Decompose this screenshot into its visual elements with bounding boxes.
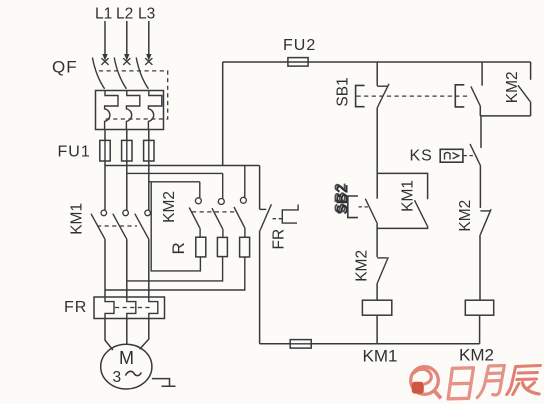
button SB1 NC contact [377,84,389,108]
wire KS to KM2 NC [479,166,481,208]
contact KM2 NC right [480,209,491,235]
wire branch A phase1 to KM2 pole3 and control [105,165,260,167]
button SB2 NO contact [365,199,377,224]
button SB1 right actuator bracket [455,85,464,107]
button SB2 actuator dash [359,206,370,208]
wire phase1 FU1 to KM1 [104,161,106,210]
wire L2 incoming [124,21,129,61]
wire rail to KM2 self-hold [530,62,532,80]
wire phase1 KM1 to FR [104,240,106,297]
button linkage dashed SB1 to right contact [357,95,471,97]
breaker QF terminal x pole3 [145,58,152,65]
svg-text:KM2: KM2 [354,250,371,282]
svg-text:3: 3 [113,369,122,386]
wire rail to SB1 [376,62,378,86]
wire KM2 self-hold bottom [530,102,532,116]
wire FR to motor phase1 [105,319,113,351]
wire right contact to node [479,106,481,116]
wire KM2 pole2 to R2 [222,229,224,237]
fuse FU2 link [288,61,308,63]
thermal relay FR heater pole1 [105,297,114,319]
wire R3 return to phase1 [105,257,245,290]
svg-text:KM2: KM2 [504,71,521,103]
wire control feed riser [222,62,224,166]
thermal relay FR linkage dashed [115,307,152,309]
breaker QF internal element pole3 [148,91,161,130]
wire SB1 to SB2 node [376,108,378,199]
svg-text:FU2: FU2 [283,37,316,54]
resistor R1 [196,237,206,257]
contactor KM2 pole1 contact [189,198,201,229]
svg-text:KM2: KM2 [459,346,494,365]
fuse FU1 pole2 link [126,140,128,161]
relay KS actuator dash [464,155,475,157]
breaker QF housing box [96,91,164,130]
wire phase2 FU1 to KM1 [126,161,128,210]
wire FR-control branch riser [259,166,261,210]
fuse bottom rail link [290,343,311,345]
wire phase3 FU1 to KM1 [148,161,150,210]
thermal relay FR heater pole2 [127,297,136,319]
contactor KM1 linkage dashed [97,225,137,227]
svg-text:SB1: SB1 [335,77,352,106]
wire L1 incoming [102,21,107,61]
fuse FU1 pole1 body [100,140,110,161]
wire bottom rail [260,343,480,345]
contactor KM1 pole2 contact [113,210,129,240]
contactor KM1 pole3 contact [135,210,151,240]
thermal contact FR actuator dash [273,218,282,220]
wire FR to motor phase3 [140,319,149,350]
svg-text:FR: FR [271,229,288,250]
wire L3 incoming [146,21,151,61]
relay KS symbol box [440,149,463,162]
svg-text:KM1: KM1 [69,203,86,235]
breaker QF internal element pole2 [126,91,139,130]
wire FR control to bottom rail [259,231,261,344]
svg-text:KM2: KM2 [457,200,474,232]
breaker QF internal element pole1 [105,91,118,130]
fuse bottom rail body [290,340,311,349]
svg-text:M: M [119,348,134,368]
wire phase2 KM1 to FR [126,240,128,297]
svg-text:SB2: SB2 [334,184,351,214]
svg-text:KM2: KM2 [161,191,178,223]
svg-text:KM1: KM1 [363,347,398,366]
svg-text:QF: QF [52,58,78,77]
svg-text:L3: L3 [138,6,155,23]
wire self-hold bottom link [480,115,530,117]
watermark character ri [448,368,473,399]
contact KS NO [470,144,481,166]
contact KM2 interlock NC [377,257,388,284]
wire pole2 QF to FU1 [126,130,128,162]
wire KM2 interlock to KM1 coil [376,284,378,301]
wire node to KS [480,116,482,148]
wire pole1 QF to FU1 [104,130,106,162]
wire KM2 pole3 feed [244,166,246,198]
thermal contact FR release symbol [282,205,298,224]
wire KM2 coil to bottom rail [479,315,481,344]
wire KM1 coil to bottom rail [376,315,378,344]
contact KM2 self-hold NO [518,85,530,101]
wire branch B phase2 to KM2 pole2 [127,172,223,174]
fuse FU1 pole1 link [104,140,106,161]
thermal contact FR NC [260,204,272,230]
coil KM1 [362,300,391,315]
wire control top rail [223,61,531,63]
breaker QF trip linkage dashed [99,71,168,119]
breaker QF terminal x pole2 [123,58,130,65]
svg-text:L2: L2 [116,6,133,23]
thermal relay FR heater pole3 [149,297,158,319]
wire branch C phase3 to KM2 pole1 [149,181,200,183]
svg-text:KM1: KM1 [400,180,417,212]
resistor R2 [217,237,227,256]
fuse FU1 pole3 link [148,140,150,161]
wire KM1 aux branch bottom [377,226,428,229]
thermal relay FR housing [94,297,165,319]
watermark magnifier blob [412,382,424,394]
breaker QF terminal x pole1 [101,58,108,65]
wire KM2 pole1 to R1 [199,229,201,238]
motor M [101,344,152,389]
contactor KM1 pole1 contact [91,210,107,240]
watermark character yue [477,366,504,398]
svg-text:FU1: FU1 [58,144,91,161]
motor tilde [126,371,142,375]
wire KM2 pole1 feed [199,182,201,198]
wire R2 return to phase2 [127,257,223,281]
contact KM1 aux NO [415,200,428,226]
button SB2 actuator bracket [348,196,358,218]
breaker QF blade pole3 [136,58,148,89]
wire R1 return to phase3 [151,182,200,271]
wire pole3 QF to FU1 [148,130,150,162]
svg-text:KS: KS [410,148,433,165]
wire KM1 aux branch top [377,173,427,199]
wire KM2 NC to KM2 coil [479,235,481,301]
fuse FU1 pole2 body [122,140,132,161]
wire KM2 pole3 to R3 [244,228,246,237]
wire phase3 KM1 to FR [148,240,150,297]
contactor KM2 pole3 contact [234,197,246,228]
contactor KM2 pole2 contact [212,199,224,230]
button SB2 label blue [333,183,352,215]
svg-text:FR: FR [64,299,87,316]
fuse FU1 pole3 body [144,140,154,161]
watermark character chen [507,366,543,395]
coil KM2 [465,300,493,315]
svg-text:L1: L1 [95,6,112,23]
breaker QF blade pole1 [92,58,104,89]
button SB1 right contact NO [471,86,480,106]
wire SB2 to KM2 interlock [376,224,378,257]
svg-text:R: R [169,242,188,254]
resistor R3 [240,237,250,257]
button SB1 actuator bracket [356,85,365,106]
contactor KM2 linkage dashed [192,211,238,213]
breaker QF blade pole2 [114,58,126,89]
wire FR to motor phase2 [126,319,128,345]
wire KM2 pole2 feed [222,173,224,198]
fuse FU2 body [288,58,308,67]
wire rail to SB1 right contact [481,62,483,86]
motor earth wire [152,379,176,387]
watermark magnifier icon [411,367,441,399]
